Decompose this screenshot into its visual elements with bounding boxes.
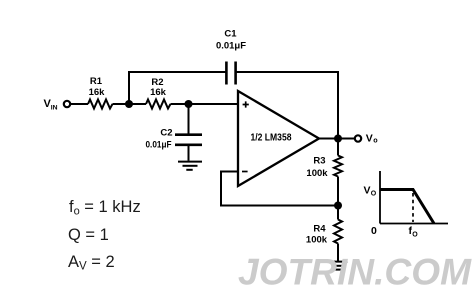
svg-text:fo = 1 kHz: fo = 1 kHz xyxy=(69,198,141,218)
svg-text:AV = 2: AV = 2 xyxy=(68,253,115,273)
svg-text:IN: IN xyxy=(51,105,58,112)
svg-text:R3: R3 xyxy=(313,156,325,167)
svg-text:O: O xyxy=(412,232,418,239)
svg-text:JOTRIN.COM: JOTRIN.COM xyxy=(238,251,472,293)
svg-text:1/2 LM358: 1/2 LM358 xyxy=(251,133,292,144)
svg-text:0: 0 xyxy=(371,225,377,237)
svg-text:0.01μF: 0.01μF xyxy=(216,41,246,52)
svg-text:C2: C2 xyxy=(160,128,172,139)
svg-text:V: V xyxy=(364,185,371,197)
svg-text:Q = 1: Q = 1 xyxy=(68,226,109,244)
svg-text:R1: R1 xyxy=(90,76,103,87)
svg-text:16k: 16k xyxy=(89,87,106,98)
svg-text:C1: C1 xyxy=(224,29,237,40)
svg-text:16k: 16k xyxy=(150,87,167,98)
svg-text:R4: R4 xyxy=(313,224,326,235)
svg-text:o: o xyxy=(373,136,378,145)
svg-text:O: O xyxy=(371,191,377,198)
svg-text:100k: 100k xyxy=(306,168,328,179)
svg-text:V: V xyxy=(366,133,373,145)
svg-text:100k: 100k xyxy=(306,235,328,246)
svg-text:0.01μF: 0.01μF xyxy=(146,140,172,151)
